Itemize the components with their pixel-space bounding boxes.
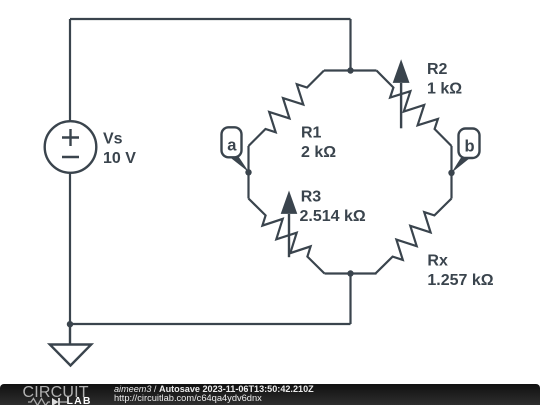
svg-text:1.257 kΩ: 1.257 kΩ xyxy=(427,272,493,289)
rheostat R2 xyxy=(377,71,452,147)
wire top rail xyxy=(70,18,351,20)
svg-text:R2: R2 xyxy=(427,61,448,78)
svg-text:Rx: Rx xyxy=(427,253,448,270)
node b junction xyxy=(448,170,454,176)
wire left vertical (source to ground rail) xyxy=(69,173,71,324)
wire bridge bottom stub xyxy=(325,272,377,274)
footer bar xyxy=(0,384,540,405)
svg-text:10 V: 10 V xyxy=(103,150,136,167)
wire right vertical (top rail to bridge top) xyxy=(349,19,351,71)
arrow of R3 xyxy=(281,191,298,258)
svg-text:1 kΩ: 1 kΩ xyxy=(427,81,462,98)
node label b box xyxy=(459,129,480,159)
wire bridge top stub xyxy=(324,69,377,71)
svg-text:2 kΩ: 2 kΩ xyxy=(301,144,336,161)
resistor Rx xyxy=(376,199,452,274)
svg-text:b: b xyxy=(465,137,475,155)
arrow of R2 xyxy=(393,59,410,128)
svg-text:a: a xyxy=(227,137,237,155)
node label a pointer xyxy=(228,156,249,173)
footer text line 2 xyxy=(114,394,262,404)
wire bottom rail xyxy=(70,323,351,325)
ground xyxy=(50,325,91,366)
resistor R1 xyxy=(249,71,325,147)
footer text line 1 xyxy=(114,385,314,395)
node label b pointer xyxy=(451,157,471,173)
wire node a stub xyxy=(247,146,249,199)
junction ground node xyxy=(67,321,73,327)
rheostat R3 xyxy=(249,199,325,274)
voltage source Vs xyxy=(45,121,97,173)
node a junction xyxy=(245,169,251,175)
CircuitLab logo resistor glyph xyxy=(28,397,68,405)
svg-text:Vs: Vs xyxy=(103,131,123,148)
junction top node xyxy=(347,67,353,73)
wire left vertical (top rail to source) xyxy=(69,19,71,121)
junction bottom node xyxy=(347,270,353,276)
wire node b stub xyxy=(450,146,452,199)
node label a box xyxy=(222,127,242,157)
svg-text:2.514 kΩ: 2.514 kΩ xyxy=(300,208,366,225)
CircuitLab logo CIRCUIT xyxy=(23,384,89,402)
svg-text:R3: R3 xyxy=(301,189,322,206)
CircuitLab logo LAB xyxy=(67,395,92,405)
wire bottom node drop xyxy=(349,274,351,325)
svg-text:R1: R1 xyxy=(301,125,322,142)
